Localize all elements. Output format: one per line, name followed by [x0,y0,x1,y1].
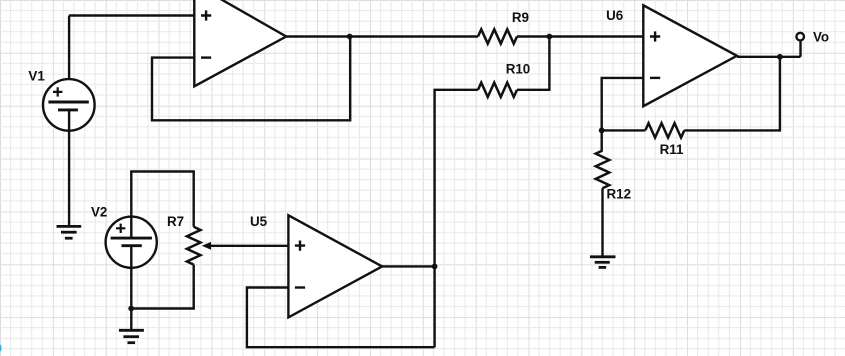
node junction R11/R12 [599,127,605,133]
wire R9 to U6 noninverting input [517,35,643,37]
wire output stem up to terminal [799,40,801,57]
svg-text:U5: U5 [250,214,268,229]
wire R12 bottom stem [601,188,603,256]
voltage source V1 [43,79,95,131]
svg-text:R10: R10 [506,61,531,76]
wire R11 to output column [684,57,780,131]
resistor R12 [596,151,610,189]
wire junction down to R10 [517,37,549,90]
ground G2 under V2 [119,330,144,342]
svg-text:V2: V2 [91,205,107,220]
wire op-amp A feedback: inverting input loop [152,37,350,121]
node junction V2/R7/ground [128,306,134,312]
wire op-amp A output to R9 [286,35,478,37]
wire U5 feedback loop [247,288,435,348]
node junction U6 output [777,54,783,60]
node junction U5 output [432,264,438,270]
svg-text:Vo: Vo [813,30,829,45]
svg-text:R7: R7 [167,214,184,229]
arrowhead on wiper [202,242,211,250]
resistor R7 (potentiometer) [187,227,201,265]
wire U6 output [737,56,801,58]
wire V1 plus to op-amp A noninverting input [69,14,194,16]
op-amp U5 [288,215,382,317]
wire U5 output [382,265,435,267]
wire ground stem [130,309,132,331]
decorative blue mark bottom-left [0,342,2,353]
ground G3 under R12 [590,257,616,268]
wire V2 top to R7 top [131,172,193,239]
wire R7 wiper arrow to U5 noninverting input [210,245,289,247]
resistor R11 [645,123,684,137]
terminal Vo [796,33,804,41]
svg-text:R9: R9 [512,10,529,25]
wire V1 top stem [68,16,70,103]
wire R7 bottom [131,265,194,309]
svg-text:R11: R11 [660,142,684,157]
wire V2 bottom stem [130,246,132,309]
op-amp U6 [643,5,737,106]
node junction R9/R10 [547,34,553,40]
wire U6 inverting input down to node [602,78,644,130]
op-amp U4 (top, unlabeled) [194,0,286,86]
resistor R10 [478,83,517,97]
wire node to R12 [601,130,603,150]
svg-text:V1: V1 [28,68,45,83]
voltage source V2 [106,217,157,268]
node junction at op-amp A output [347,34,353,40]
resistor R9 [478,29,517,43]
svg-text:R12: R12 [607,186,632,201]
ground G1 under V1 [57,226,82,238]
wire node to R11 [602,129,646,131]
svg-text:U6: U6 [606,8,623,23]
wire V1 bottom stem [68,110,70,226]
wire R10 left to U5 output column [435,90,478,347]
